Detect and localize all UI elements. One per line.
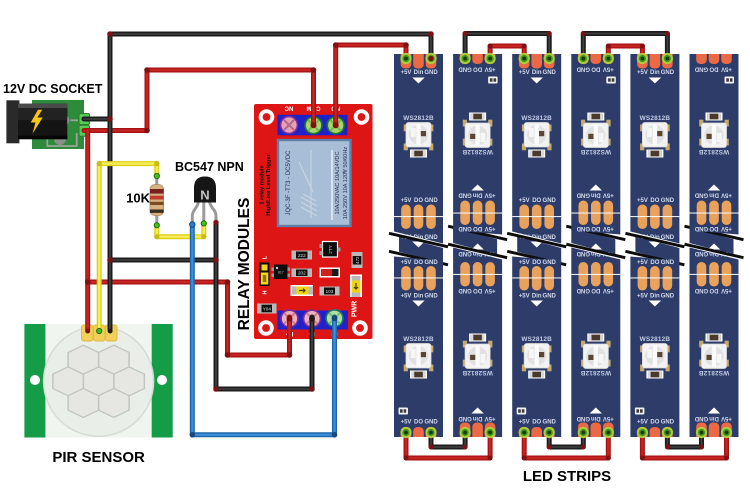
LABELS-LAYER [3, 82, 611, 485]
relay mounting hole top-right [354, 109, 370, 125]
relay PCB [254, 104, 373, 339]
svg-text:222: 222 [298, 253, 306, 258]
strip4 bottom rings [578, 427, 589, 438]
resistor band 3 [150, 202, 164, 205]
green connection dots [97, 173, 207, 333]
wire yellow: PIR OUT up to resistor top [99, 164, 157, 330]
SMD resistor 472 vertical [352, 252, 363, 268]
red wire corner dots [85, 42, 729, 460]
strip5 bottom rings [637, 427, 648, 438]
resistor band 1 [150, 189, 164, 194]
relay mounting hole bottom-left [258, 320, 274, 336]
PIR sensor module [24, 324, 172, 438]
relay top terminal block [278, 115, 348, 136]
wire black: bottom jumper strip5-strip6 [667, 433, 701, 447]
relay DC- wire end [309, 316, 315, 322]
svg-text:PWR: PWR [352, 301, 359, 317]
transistor emitter wire end [213, 220, 218, 225]
resistor leads [155, 172, 158, 226]
PIR GND wire end [108, 329, 113, 334]
svg-text:Y04: Y04 [263, 307, 272, 312]
svg-text:2TY: 2TY [328, 245, 333, 253]
svg-text:JQC-3F -T73 - DC5VDC: JQC-3F -T73 - DC5VDC [286, 150, 292, 216]
socket pin tab 2 [79, 125, 90, 136]
wire red: bottom jumper strip1-strip2 [406, 433, 490, 458]
socket metal tip [67, 116, 69, 124]
wire bend-point dots [85, 31, 729, 461]
wire red: socket V+ down to PIR VCC [85, 131, 90, 331]
transistor body [194, 177, 216, 203]
PIR left hole [30, 375, 40, 385]
socket barrel bottom edge [18, 136, 67, 140]
SMD resistor 222 [292, 251, 313, 260]
relay IN wire end [332, 315, 338, 321]
PIR VCC wire end [85, 329, 90, 334]
strip2 top rings [460, 53, 471, 64]
optocoupler IC [272, 265, 291, 280]
wire red: socket V+ to relay COM [84, 70, 314, 131]
SOT-23 transistor 2TY [320, 242, 341, 258]
SMD resistor bottom-left [257, 304, 277, 314]
wire black: bottom jumper strip1-strip2 [431, 433, 465, 447]
screw DC- [304, 310, 321, 327]
LED strip column 2 (rotated) [448, 54, 507, 437]
LED strip column 3 [507, 54, 566, 437]
relay mounting hole top-left [259, 109, 275, 125]
relay body text [286, 147, 349, 220]
strip3 bottom rings [519, 427, 530, 438]
PIR left green bar [24, 324, 45, 438]
socket trace half-circle [54, 139, 66, 145]
wire black: top jumper strip4-strip5 [583, 34, 667, 59]
socket barrel highlight [18, 104, 67, 109]
wire black: socket GND stub [84, 117, 110, 122]
socket PCB traces [47, 120, 78, 146]
wire black: main GND run to strip1 GND [110, 34, 431, 329]
LED strip column 1 [389, 54, 448, 437]
relay NO wire end [333, 122, 339, 128]
PIR fresnel hexagons [53, 345, 145, 417]
svg-text:10K: 10K [126, 191, 150, 206]
strip connection rings [400, 53, 732, 438]
LED strip column 6 (rotated) [685, 54, 744, 437]
svg-text:H: H [263, 290, 269, 294]
terminal labels NC COM NO [284, 105, 340, 111]
strip1 bottom rings [400, 427, 411, 438]
strip5 top rings [637, 53, 648, 64]
strip2 bottom rings [460, 427, 471, 438]
resistor band 2 [150, 196, 164, 200]
PIR dome [44, 326, 154, 436]
svg-text:LED STRIPS: LED STRIPS [523, 468, 611, 485]
wire red: bottom jumper strip3-strip4 [524, 433, 608, 458]
relay module board [254, 104, 373, 339]
transistor collector wire end [190, 222, 195, 227]
black wire corner dots [107, 31, 704, 450]
jumper header H/L [260, 255, 270, 294]
SMD resistor 202 [292, 269, 313, 278]
screw DC+ [281, 310, 298, 327]
svg-text:10A/250VAC 10A/14VDC: 10A/250VAC 10A/14VDC [335, 151, 341, 214]
SMD resistor 103 [320, 287, 340, 296]
blue wire corner dots [190, 432, 338, 438]
wire black: bottom jumper strip3-strip4 [549, 433, 583, 447]
svg-text:12V DC SOCKET: 12V DC SOCKET [3, 82, 103, 96]
PIR pin header connector [82, 325, 118, 341]
wire red: relay NO to strip1 +5V [336, 45, 406, 124]
svg-text:817: 817 [278, 271, 284, 275]
screw NO [327, 117, 344, 134]
strip6 bottom rings [696, 427, 707, 438]
wire red: top jumper strip4-strip5 [608, 46, 642, 58]
SMD diode red [320, 268, 341, 278]
relay bottom terminal block [278, 311, 349, 330]
strip1 GND wire end [428, 56, 433, 61]
screw COM [305, 117, 322, 134]
svg-text:PIR SENSOR: PIR SENSOR [52, 449, 145, 466]
wire black: top jumper strip2-strip3 [465, 34, 549, 59]
relay body JQC-3F [278, 140, 351, 226]
WIRES-LAYER [84, 34, 727, 459]
socket PCB [32, 100, 84, 149]
strip1 top rings [400, 53, 411, 64]
svg-text:202: 202 [298, 271, 306, 276]
svg-text:1 relay module: 1 relay module [260, 165, 266, 204]
relay COM wire end [311, 122, 317, 128]
wire black: tee to transistor emitter line [110, 258, 216, 263]
relay mounting hole bottom-right [352, 320, 368, 336]
PIR right green bar [152, 324, 173, 438]
wire red: top jumper strip2-strip3 [490, 46, 524, 58]
wire red: bottom jumper strip5-strip6 [642, 433, 726, 458]
svg-text:NC: NC [284, 105, 293, 111]
socket lightning bolt [31, 110, 43, 134]
LED 1 yellow [291, 285, 314, 296]
svg-text:472: 472 [355, 256, 360, 264]
socket barrel body [18, 104, 67, 140]
PWR LED yellow vertical [350, 275, 362, 298]
wire blue: transistor collector to relay IN [192, 224, 334, 435]
screw NC [281, 117, 298, 134]
svg-text:BC547 NPN: BC547 NPN [175, 160, 244, 174]
transistor legs [192, 200, 216, 223]
socket barrel cap [6, 100, 19, 143]
wire red: branch to relay DC+ [88, 282, 290, 355]
resistor band 4 [150, 210, 164, 213]
relay body sketch lines [299, 150, 332, 220]
resistor R1 10K [150, 172, 164, 226]
PIR right hole [157, 375, 167, 385]
bottom terminal labels [285, 330, 337, 336]
strip4 top rings [578, 53, 589, 64]
LED strip column 4 (rotated) [566, 54, 625, 437]
wire black: transistor emitter to relay DC- [216, 223, 312, 390]
12V DC socket J1 [6, 100, 89, 149]
svg-text:RELAY MODULES: RELAY MODULES [236, 198, 253, 331]
wire yellow: resistor bottom to transistor base [157, 223, 204, 236]
transistor Q1 BC547 [192, 177, 216, 224]
PIR board [24, 324, 172, 438]
yellow wire corner dots [97, 161, 207, 239]
strip3 top rings [519, 53, 530, 64]
resistor body [150, 185, 164, 216]
COMPONENTS-LAYER [6, 100, 372, 438]
relay left silk text [260, 153, 273, 215]
svg-text:N: N [200, 188, 209, 203]
svg-text:10A 250V 10A 120V 50/60Hz: 10A 250V 10A 120V 50/60Hz [343, 147, 349, 220]
svg-text:103: 103 [326, 289, 334, 294]
socket pin tab 1 [79, 114, 90, 125]
relay DC+ wire end [287, 316, 293, 322]
svg-text:High/Low Level Trigger: High/Low Level Trigger [266, 153, 272, 215]
LED strip column 5 [625, 54, 684, 437]
screw IN [326, 310, 343, 327]
